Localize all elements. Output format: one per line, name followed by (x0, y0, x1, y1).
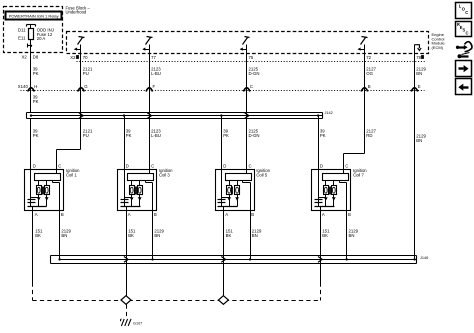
svg-text:D: D (33, 164, 36, 169)
svg-text:X2: X2 (70, 55, 76, 60)
svg-text:BN: BN (252, 233, 258, 238)
svg-text:PU: PU (83, 71, 89, 76)
svg-text:77: 77 (151, 55, 156, 60)
svg-text:L-BU: L-BU (151, 71, 161, 76)
svg-text:PK: PK (223, 133, 229, 138)
svg-text:X140: X140 (18, 84, 29, 89)
svg-text:Coil 7: Coil 7 (353, 172, 364, 177)
svg-text:J142: J142 (325, 111, 333, 115)
svg-text:PK: PK (320, 133, 326, 138)
svg-text:75: 75 (249, 55, 254, 60)
svg-text:J146: J146 (420, 256, 428, 260)
svg-text:D: D (223, 164, 226, 169)
svg-text:BN: BN (416, 138, 422, 143)
svg-text:C: C (466, 30, 469, 35)
svg-text:72: 72 (366, 55, 371, 60)
svg-text:B: B (368, 84, 371, 89)
svg-text:RD: RD (366, 133, 372, 138)
svg-text:BN: BN (416, 71, 422, 76)
svg-text:B: B (154, 212, 157, 217)
svg-text:F: F (153, 84, 156, 89)
svg-text:BN: BN (154, 233, 160, 238)
svg-text:OG: OG (366, 71, 373, 76)
svg-text:D: D (320, 164, 323, 169)
svg-text:BK: BK (226, 233, 232, 238)
svg-text:PK: PK (126, 133, 132, 138)
svg-text:Coil 3: Coil 3 (159, 172, 170, 177)
svg-text:BK: BK (35, 233, 41, 238)
svg-text:D11: D11 (18, 28, 26, 33)
svg-text:X2: X2 (22, 55, 28, 60)
svg-text:L-BU: L-BU (151, 133, 161, 138)
svg-text:B: B (61, 212, 64, 217)
svg-text:A: A (128, 212, 131, 217)
svg-text:C: C (58, 164, 61, 169)
svg-text:D-GN: D-GN (249, 71, 260, 76)
svg-text:E11: E11 (18, 36, 26, 41)
svg-text:H: H (34, 84, 37, 89)
svg-text:BN: BN (61, 233, 67, 238)
svg-text:PK: PK (33, 133, 39, 138)
svg-text:Coil 1: Coil 1 (66, 172, 77, 177)
svg-text:E: E (418, 84, 421, 89)
svg-text:Coil 5: Coil 5 (256, 172, 267, 177)
svg-text:B: B (348, 212, 351, 217)
svg-text:70: 70 (83, 55, 88, 60)
svg-text:D-GN: D-GN (249, 133, 260, 138)
svg-text:A: A (322, 212, 325, 217)
svg-text:Underhood: Underhood (66, 10, 87, 15)
svg-text:C: C (465, 10, 468, 15)
svg-text:C: C (151, 164, 154, 169)
svg-text:C: C (249, 164, 252, 169)
svg-text:A: A (35, 212, 38, 217)
svg-text:(ECM): (ECM) (432, 45, 444, 50)
svg-text:A: A (225, 212, 228, 217)
svg-text:D: D (126, 164, 129, 169)
svg-text:D8: D8 (33, 55, 39, 60)
svg-text:PK: PK (33, 99, 39, 104)
svg-text:BN: BN (349, 233, 355, 238)
svg-text:B: B (251, 212, 254, 217)
svg-text:78: 78 (416, 55, 421, 60)
svg-text:PK: PK (33, 71, 39, 76)
svg-text:G107: G107 (133, 321, 142, 325)
svg-text:20 A: 20 A (37, 36, 46, 41)
svg-text:POWERTRAIN IGN 1 Relay: POWERTRAIN IGN 1 Relay (9, 13, 59, 18)
svg-text:PU: PU (83, 133, 89, 138)
svg-text:C: C (345, 164, 348, 169)
svg-text:BK: BK (322, 233, 328, 238)
svg-text:BK: BK (128, 233, 134, 238)
svg-text:C: C (250, 84, 253, 89)
